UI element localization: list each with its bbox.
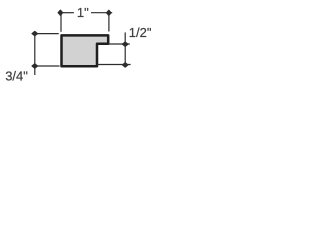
extension line: 3/4-inch top, to profile top-left [35,33,59,35]
dimension line 1-inch: right segment with overshoot past marker [91,12,112,14]
svg-text:1/2": 1/2" [129,25,152,40]
extension line: 1-inch left, down to profile top-left corner [60,14,62,32]
dimension line 1/2-inch: right vertical with overshoot above top marker [124,32,126,65]
dimension marker: 1/2-inch top diamond [122,42,128,47]
extension line: lip bottom to 1/2-inch top marker, overshoot right [109,43,130,45]
extension line: 3/4-inch bottom, to profile bottom-left [35,65,60,67]
svg-text:1": 1" [77,5,89,20]
dimension line 3/4-inch: left vertical with overshoot below bottom marker [34,34,36,76]
background [0,0,159,90]
extension line: profile bottom right to 1/2-inch bottom marker, overshoot right [97,64,131,66]
dimension marker: 3/4-inch bottom diamond [32,64,38,69]
dimension marker: 1-inch right diamond [106,10,111,15]
dimension line 1-inch: left segment [61,12,74,14]
extension line: 1-inch right, down to profile lip [108,14,110,32]
svg-text:3/4": 3/4" [5,69,28,84]
dimension marker: 1-inch left diamond [58,10,63,15]
dimension marker: 1/2-inch bottom diamond [122,63,128,68]
moulding profile cross-section (gray fill, thick dark outline, rabbet lip at top right) [62,35,109,66]
dimension marker: 3/4-inch top diamond [32,31,38,36]
